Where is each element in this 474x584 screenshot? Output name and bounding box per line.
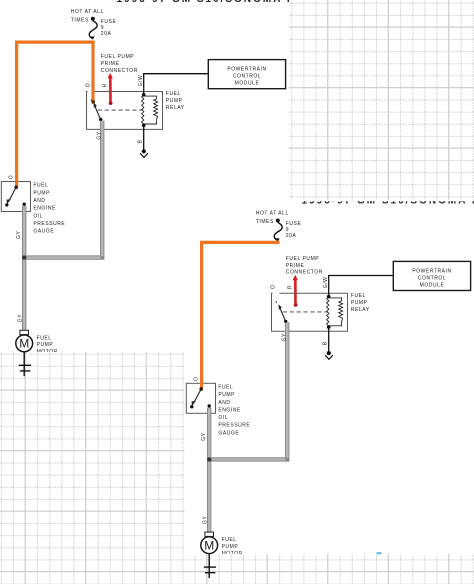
svg-text:PUMP: PUMP bbox=[33, 190, 50, 196]
node GY junction (diagram 1) bbox=[22, 255, 26, 259]
label FUEL PUMP MOTOR (diagram 1) bbox=[37, 335, 58, 355]
gauge switch contact (diagram 1) bbox=[14, 186, 18, 190]
module PCM box (diagram 1) bbox=[208, 60, 285, 89]
wire RED fuel pump prime connector (diagram 2) bbox=[294, 279, 297, 304]
relay actuator dashed link (diagram 1) bbox=[98, 109, 143, 111]
wire GY gauge to motor (diagram 2) bbox=[207, 408, 211, 532]
svg-text:20A: 20A bbox=[286, 233, 297, 239]
svg-text:AND: AND bbox=[33, 198, 45, 204]
svg-text:FUEL: FUEL bbox=[33, 183, 48, 189]
svg-text:O: O bbox=[9, 175, 15, 179]
svg-text:TIMES: TIMES bbox=[256, 219, 274, 225]
svg-text:POWERTRAIN: POWERTRAIN bbox=[227, 67, 266, 73]
diagram 1 bbox=[1, 0, 386, 376]
svg-text:FUEL: FUEL bbox=[222, 537, 237, 543]
svg-text:PUMP: PUMP bbox=[351, 300, 368, 306]
svg-text:ENGINE: ENGINE bbox=[33, 206, 56, 212]
screenshot 1 white background bbox=[0, 0, 289, 352]
diagram 2 bbox=[186, 196, 474, 578]
svg-text:GY: GY bbox=[202, 516, 208, 524]
svg-text:PUMP: PUMP bbox=[218, 392, 235, 398]
wire G/W relay to PCM (diagram 2) bbox=[329, 276, 394, 297]
svg-text:G/W: G/W bbox=[323, 277, 329, 289]
svg-text:GY: GY bbox=[96, 131, 102, 139]
svg-text:GY: GY bbox=[201, 432, 207, 440]
wire ORN fuse to relay (diagram 1 only) bbox=[91, 41, 94, 102]
svg-text:FUEL: FUEL bbox=[351, 293, 366, 299]
label FUEL PUMP MOTOR (diagram 2) bbox=[222, 537, 243, 557]
ground symbol (motor) (diagram 1) bbox=[23, 352, 25, 376]
wire G/W relay to PCM (diagram 1) bbox=[144, 74, 209, 95]
wire ORN into gauge box (diagram 2) bbox=[200, 382, 203, 388]
node fuse feed dot (diagram 1) bbox=[91, 17, 95, 21]
svg-text:GY: GY bbox=[281, 333, 287, 341]
stray blue mark bbox=[376, 552, 382, 554]
node relay switch terminal (diagram 1) bbox=[91, 100, 95, 104]
svg-text:HOT AT ALL: HOT AT ALL bbox=[256, 211, 289, 217]
svg-text:AND: AND bbox=[218, 400, 230, 406]
node fuse feed dot (diagram 2) bbox=[276, 219, 280, 223]
svg-text:O: O bbox=[271, 285, 277, 289]
svg-text:MODULE: MODULE bbox=[420, 282, 445, 288]
svg-text:R: R bbox=[103, 83, 109, 87]
svg-text:B: B bbox=[138, 140, 144, 144]
fuse 9 20A symbol (diagram 2) bbox=[274, 222, 282, 240]
svg-text:PRIME: PRIME bbox=[101, 61, 120, 67]
svg-text:PRESSURE: PRESSURE bbox=[218, 423, 250, 429]
wire ORN from fuse to gauge (diagram 1) bbox=[17, 42, 95, 187]
svg-text:B: B bbox=[323, 341, 329, 345]
svg-text:M: M bbox=[19, 337, 29, 351]
node GY junction (diagram 2) bbox=[207, 457, 211, 461]
svg-text:MODULE: MODULE bbox=[235, 81, 260, 87]
wire GY gauge to motor (diagram 1) bbox=[22, 206, 26, 330]
ground symbol (relay B) (diagram 2) bbox=[325, 355, 333, 359]
relay actuator dashed link (diagram 2) bbox=[283, 311, 328, 313]
svg-text:CONTROL: CONTROL bbox=[418, 275, 446, 281]
svg-text:FUEL: FUEL bbox=[218, 385, 233, 391]
svg-text:R: R bbox=[288, 285, 294, 289]
wire ORN into gauge box (diagram 1) bbox=[15, 180, 18, 186]
wire ORN from fuse to gauge (diagram 2) bbox=[202, 242, 280, 389]
svg-text:O: O bbox=[194, 377, 200, 381]
relay switch contact (diagram 2) bbox=[275, 301, 278, 303]
title text strip (diagram 2) bbox=[302, 196, 474, 207]
wire B relay to ground (diagram 2) bbox=[328, 327, 330, 351]
svg-text:GY: GY bbox=[16, 230, 22, 238]
svg-text:FUEL PUMP: FUEL PUMP bbox=[101, 54, 134, 60]
svg-text:OIL: OIL bbox=[218, 415, 228, 421]
svg-text:PRIME: PRIME bbox=[286, 263, 305, 269]
svg-text:PRESSURE: PRESSURE bbox=[33, 221, 65, 227]
svg-text:ENGINE: ENGINE bbox=[218, 407, 241, 413]
motor M1 fuel pump (diagram 2) bbox=[205, 532, 214, 536]
wire RED fuel pump prime connector (diagram 1) bbox=[109, 77, 112, 102]
wire GY relay to junction (diagram 2) bbox=[209, 322, 287, 459]
relay U1 box outline (diagram 2) bbox=[272, 293, 348, 331]
gauge switch box outline (diagram 2) bbox=[186, 383, 215, 413]
svg-text:PUMP: PUMP bbox=[166, 98, 183, 104]
svg-text:PUMP: PUMP bbox=[222, 544, 239, 550]
title text strip (diagram 1) bbox=[117, 0, 386, 5]
ground symbol (motor) (diagram 2) bbox=[208, 554, 210, 578]
svg-text:TIMES: TIMES bbox=[71, 17, 89, 23]
svg-text:20A: 20A bbox=[101, 31, 112, 37]
fuse 9 20A symbol (diagram 1) bbox=[89, 21, 97, 39]
svg-text:FUEL: FUEL bbox=[166, 91, 181, 97]
node relay coil terminals (diagram 2) bbox=[327, 295, 331, 299]
svg-text:PUMP: PUMP bbox=[37, 342, 54, 348]
svg-text:FUEL PUMP: FUEL PUMP bbox=[286, 256, 319, 262]
svg-text:RELAY: RELAY bbox=[351, 307, 370, 313]
gauge switch contact (diagram 2) bbox=[199, 387, 203, 391]
svg-text:G/W: G/W bbox=[138, 75, 144, 87]
wire GY relay to junction (diagram 1) bbox=[24, 121, 102, 258]
svg-text:GY: GY bbox=[17, 314, 23, 322]
svg-text:GAUGE: GAUGE bbox=[33, 229, 54, 235]
svg-text:GAUGE: GAUGE bbox=[218, 430, 239, 436]
svg-text:POWERTRAIN: POWERTRAIN bbox=[412, 268, 451, 274]
svg-text:CONNECTOR: CONNECTOR bbox=[101, 68, 138, 74]
ground symbol (relay B) (diagram 1) bbox=[140, 153, 148, 157]
svg-text:RELAY: RELAY bbox=[166, 105, 185, 111]
svg-text:CONNECTOR: CONNECTOR bbox=[286, 270, 323, 276]
motor M1 fuel pump (diagram 1) bbox=[20, 330, 29, 334]
wire B relay to ground (diagram 1) bbox=[143, 125, 145, 149]
relay coil and resistor (diagram 1) bbox=[142, 95, 144, 126]
gauge switch box outline (diagram 1) bbox=[1, 182, 30, 212]
relay switch contact (diagram 1) bbox=[90, 99, 93, 101]
svg-text:HOT AT ALL: HOT AT ALL bbox=[71, 9, 104, 15]
svg-text:FUEL: FUEL bbox=[37, 335, 52, 341]
svg-text:O: O bbox=[86, 83, 92, 87]
svg-text:OIL: OIL bbox=[33, 213, 43, 219]
svg-text:M: M bbox=[204, 538, 214, 552]
relay coil and resistor (diagram 2) bbox=[327, 297, 329, 328]
screenshot 2 white background bbox=[185, 200, 474, 554]
node relay coil terminals (diagram 1) bbox=[142, 93, 146, 97]
relay U1 box outline (diagram 1) bbox=[87, 92, 163, 130]
svg-text:CONTROL: CONTROL bbox=[233, 74, 261, 80]
module PCM box (diagram 2) bbox=[393, 261, 470, 290]
